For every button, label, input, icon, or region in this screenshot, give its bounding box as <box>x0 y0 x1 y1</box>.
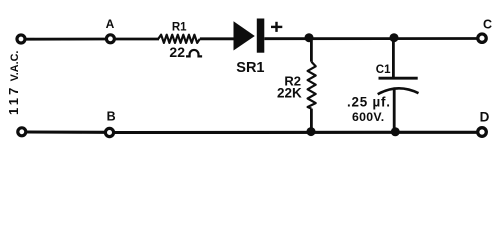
resistor R2 zigzag <box>308 62 316 109</box>
svg-text:.25 µf.: .25 µf. <box>347 94 391 109</box>
wire R2 top lead <box>310 39 313 62</box>
svg-text:22K: 22K <box>277 85 302 100</box>
wire bottom-left terminal to node B <box>26 130 105 133</box>
terminal circle top-left <box>17 35 25 43</box>
polarity plus sign <box>271 22 282 32</box>
terminal circle bottom-left <box>18 128 26 136</box>
svg-text:600V.: 600V. <box>352 110 385 124</box>
wire node A to R1 <box>115 38 159 41</box>
svg-text:A: A <box>106 17 115 31</box>
capacitor C1 bottom curved plate <box>378 88 419 94</box>
svg-text:D: D <box>480 109 490 124</box>
wire R1 to diode SR1 <box>200 37 235 40</box>
terminal circle node C <box>478 34 486 42</box>
terminal circle node D <box>478 128 487 137</box>
svg-text:R1: R1 <box>172 22 187 34</box>
diode SR1 triangle (anode) <box>234 21 255 50</box>
diode SR1 cathode bar <box>257 19 265 53</box>
wire C1 top lead <box>392 39 395 78</box>
junction dot top of C1 <box>390 33 399 42</box>
junction dot bottom of C1 <box>391 127 400 136</box>
svg-text:117 V.A.C.: 117 V.A.C. <box>6 51 21 115</box>
svg-text:22: 22 <box>169 44 185 60</box>
wire R2 bottom lead <box>310 109 313 131</box>
wire C1 bottom lead <box>393 90 396 132</box>
svg-text:C1: C1 <box>376 64 391 76</box>
capacitor C1 top plate <box>379 77 418 80</box>
wire diode to node C <box>264 37 477 40</box>
terminal circle node A <box>106 35 114 43</box>
svg-text:SR1: SR1 <box>236 60 264 76</box>
junction dot bottom of R2 <box>307 127 316 136</box>
terminal circle node B <box>105 128 113 136</box>
junction dot top of R2 <box>305 33 314 42</box>
svg-text:B: B <box>107 110 116 124</box>
resistor R1 zigzag <box>158 35 200 43</box>
wire node B to node D <box>115 131 477 134</box>
wire top-left terminal to node A <box>25 38 105 41</box>
svg-text:C: C <box>483 18 492 32</box>
